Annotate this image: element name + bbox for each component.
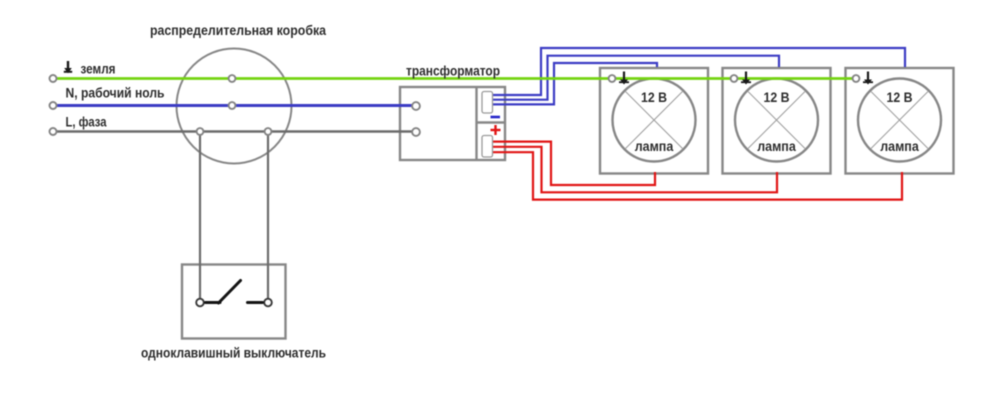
- svg-text:распределительная коробка: распределительная коробка: [150, 22, 326, 38]
- svg-text:земля: земля: [81, 61, 116, 77]
- svg-text:трансформатор: трансформатор: [406, 63, 500, 79]
- svg-text:одноклавишный выключатель: одноклавишный выключатель: [141, 345, 326, 361]
- svg-text:L, фаза: L, фаза: [66, 114, 107, 130]
- svg-text:12 В: 12 В: [641, 89, 667, 105]
- svg-text:лампа: лампа: [880, 138, 919, 154]
- svg-text:N, рабочий ноль: N, рабочий ноль: [66, 85, 165, 101]
- svg-text:лампа: лампа: [635, 138, 674, 154]
- svg-text:лампа: лампа: [757, 138, 796, 154]
- svg-text:12 В: 12 В: [764, 89, 790, 105]
- svg-text:12 В: 12 В: [887, 89, 913, 105]
